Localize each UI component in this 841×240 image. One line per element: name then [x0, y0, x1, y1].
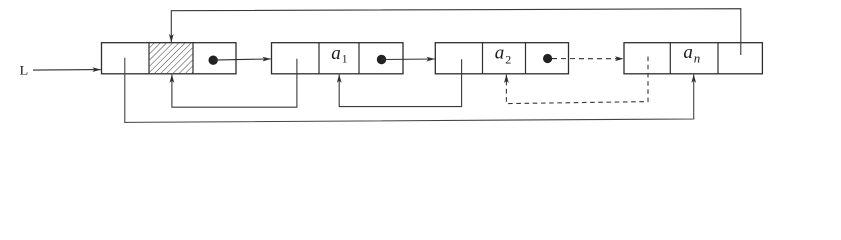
- wire prev loop: head node forward to an (long bottom): [125, 58, 694, 123]
- svg-text:2: 2: [505, 52, 511, 66]
- node head box: [102, 43, 237, 74]
- node head cell dividers: [148, 43, 150, 74]
- node a1 box: [272, 43, 404, 74]
- node a1 cell dividers: [318, 43, 320, 74]
- wire arrow a1 to node a2: [382, 58, 435, 61]
- svg-text:a: a: [331, 43, 341, 64]
- svg-text:a: a: [683, 42, 693, 63]
- wire prev loop: a1 back to head node: [172, 59, 297, 107]
- wire dashed arrow a2 toward node an: [552, 58, 623, 60]
- wire dashed prev loop: an back to a2: [506, 57, 648, 104]
- svg-text:L: L: [20, 63, 29, 77]
- wire top loop: an next to head node: [171, 9, 741, 55]
- svg-text:a: a: [495, 43, 505, 64]
- node a1 next-pointer dot: [377, 55, 386, 64]
- node a2 next-pointer dot: [543, 54, 552, 63]
- node a2 cell dividers: [482, 43, 484, 74]
- wire arrow head to node a1: [214, 59, 271, 60]
- wire prev loop: a2 back to a1: [339, 59, 461, 106]
- node an cell dividers: [669, 43, 671, 74]
- svg-text:1: 1: [342, 53, 348, 65]
- node a2 box: [435, 43, 568, 74]
- wire arrow L to head node: [33, 69, 101, 72]
- node head hatched cell: [150, 43, 193, 73]
- node an box: [624, 43, 762, 74]
- node head next-pointer dot: [209, 56, 218, 65]
- svg-text:n: n: [694, 50, 701, 65]
